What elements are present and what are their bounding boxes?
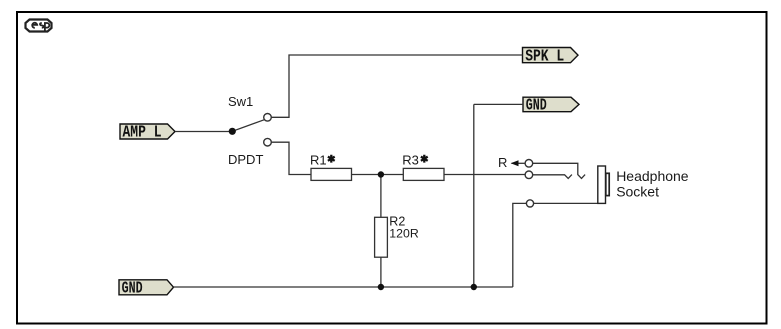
svg-text:R1: R1 (310, 153, 327, 168)
svg-text:Socket: Socket (616, 183, 659, 199)
svg-text:DPDT: DPDT (228, 152, 263, 167)
svg-text:R: R (498, 155, 507, 170)
svg-text:GND: GND (526, 96, 547, 115)
svg-text:AMP L: AMP L (123, 123, 162, 142)
svg-text:SPK L: SPK L (525, 46, 564, 65)
svg-text:R3: R3 (402, 153, 419, 168)
svg-text:GND: GND (122, 278, 143, 297)
svg-text:Sw1: Sw1 (228, 94, 253, 109)
svg-text:120R: 120R (389, 227, 419, 241)
svg-text:Headphone: Headphone (616, 168, 689, 184)
